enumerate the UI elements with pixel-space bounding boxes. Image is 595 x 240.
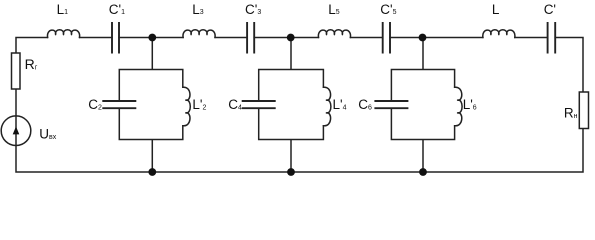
svg-text:L: L bbox=[492, 2, 500, 17]
svg-text:C': C' bbox=[544, 2, 556, 17]
